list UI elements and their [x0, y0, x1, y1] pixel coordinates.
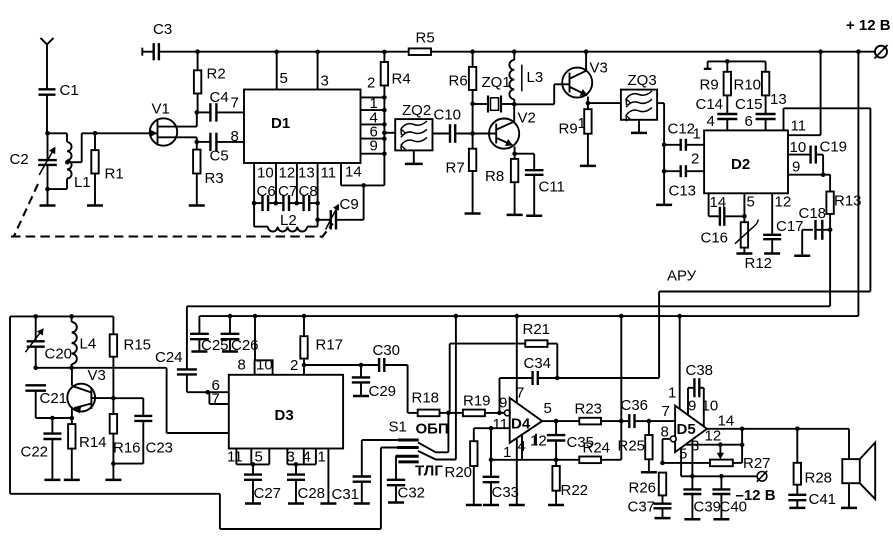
ZQ3 quartz filter [588, 102, 621, 104]
wire to pin 7 of D5 [649, 420, 675, 422]
switch S1 arm 1 [418, 442, 448, 452]
+12V terminal [875, 46, 887, 58]
svg-text:C2: C2 [10, 151, 29, 168]
svg-text:11: 11 [321, 165, 337, 182]
capacitor C11 [515, 153, 535, 155]
ZQ2 quartz filter [395, 119, 432, 150]
svg-text:3: 3 [321, 73, 329, 90]
wire R6 node to V2 base [472, 104, 474, 134]
svg-text:C34: C34 [524, 355, 552, 372]
pin 1 ground of D3 [327, 449, 329, 504]
svg-text:11: 11 [227, 449, 243, 466]
svg-text:ТЛГ: ТЛГ [415, 462, 443, 479]
svg-text:11: 11 [791, 118, 807, 135]
svg-text:L1: L1 [74, 174, 91, 191]
pin 12 of D2 / capacitor C17 [771, 193, 773, 235]
resistor R9 [726, 61, 728, 71]
svg-text:12: 12 [775, 194, 792, 211]
pin 1 ground of D4 [516, 438, 518, 505]
svg-text:C29: C29 [369, 383, 397, 400]
svg-text:5: 5 [255, 449, 263, 466]
transistor V3 (VFO) [67, 384, 95, 412]
resistor R1 [94, 133, 96, 150]
L1 tap wire [65, 160, 70, 165]
resistor R27 (variable) [710, 460, 733, 467]
node R6-ZQ1 [470, 102, 475, 107]
pin 3 of D1 [317, 52, 319, 90]
ground at R8 [507, 214, 523, 217]
svg-text:12: 12 [705, 428, 722, 445]
resistor R16 [111, 396, 116, 401]
capacitor C23 [113, 397, 143, 399]
svg-text:5: 5 [280, 70, 288, 87]
svg-text:C27: C27 [254, 485, 282, 502]
IC D2 [704, 130, 788, 193]
capacitor C30 [361, 364, 379, 366]
svg-text:V3: V3 [88, 367, 106, 384]
resistor R18 [408, 412, 418, 414]
svg-text:7: 7 [212, 391, 220, 408]
svg-text:C31: C31 [332, 486, 360, 503]
wire pin14 to C9 [363, 185, 365, 219]
capacitor C26 [229, 316, 231, 334]
R9/R10 top rail [708, 60, 766, 62]
capacitor C31 [361, 440, 363, 476]
VFO supply rail [10, 315, 113, 317]
svg-text:R7: R7 [446, 160, 465, 177]
ground at R1 [87, 204, 103, 207]
capacitor C25 [198, 316, 200, 334]
ground at ZQ3 [638, 120, 640, 133]
svg-text:ОБП: ОБП [416, 421, 449, 438]
svg-text:8: 8 [231, 128, 239, 145]
capacitor C24 [186, 306, 188, 369]
svg-text:L2: L2 [280, 212, 297, 229]
pins 8/10 of D3 [254, 316, 256, 360]
pin 8 of D5 [670, 436, 676, 442]
pin 2 of D3 [303, 365, 305, 375]
svg-text:C38: C38 [686, 362, 714, 379]
resistor R3 [196, 142, 198, 150]
wire R17 node to C30 [304, 364, 360, 366]
resistor R13 [823, 174, 830, 176]
capacitor C10 [433, 133, 450, 135]
svg-text:6: 6 [745, 113, 753, 130]
stub tick near R9 [707, 61, 709, 68]
inductor L3 [513, 52, 515, 60]
left frame wire [9, 316, 11, 493]
svg-text:R16: R16 [113, 440, 141, 457]
svg-text:1: 1 [318, 449, 326, 466]
svg-text:C32: C32 [398, 485, 426, 502]
resistor R26 [659, 473, 666, 496]
inductor L2 [253, 203, 255, 227]
svg-text:C9: C9 [340, 196, 359, 213]
svg-text:R28: R28 [805, 470, 833, 487]
pin 13 riser of D1 [296, 163, 298, 203]
wire ZQ3 to C12/C13 bus [657, 102, 664, 104]
svg-text:R10: R10 [734, 77, 762, 94]
capacitor C5 [195, 140, 200, 145]
switch S1 contact 2 [381, 447, 397, 449]
capacitor C32 [395, 456, 397, 480]
svg-text:R9: R9 [559, 121, 578, 138]
capacitor C40 [720, 476, 722, 489]
capacitor C3 [141, 48, 143, 56]
D4 output wire [542, 420, 556, 422]
svg-text:C21: C21 [40, 390, 68, 407]
pin 1 of D1 [361, 109, 385, 111]
ground at R20 [466, 504, 482, 507]
capacitor C36 [621, 420, 628, 422]
svg-text:D2: D2 [731, 156, 750, 173]
svg-text:C5: C5 [210, 148, 229, 165]
pin 13 of D2 [783, 108, 785, 130]
IC D3 [229, 375, 343, 449]
antenna W1 [41, 38, 54, 45]
svg-text:1: 1 [668, 385, 676, 402]
VFO tank wire to C24 [36, 367, 167, 369]
pin 6/7 of D3 [187, 391, 229, 393]
tuning gang dashed link [14, 184, 38, 236]
svg-text:R14: R14 [79, 434, 107, 451]
svg-text:C19: C19 [820, 139, 848, 156]
svg-text:13: 13 [298, 165, 315, 182]
svg-text:ZQ2: ZQ2 [402, 102, 431, 119]
svg-text:10: 10 [257, 165, 274, 182]
svg-text:D5: D5 [677, 421, 696, 438]
pin 5 of D3 [250, 449, 252, 465]
svg-text:R12: R12 [745, 255, 773, 272]
resistor R28 [796, 429, 798, 463]
resistor R8 [514, 154, 516, 159]
wire C1 to tank node [46, 95, 48, 134]
wire R13 node to lower rail [829, 230, 831, 306]
pin 11 of D3 [235, 449, 237, 465]
capacitor C7 [268, 202, 284, 204]
ground at R16 [105, 479, 121, 482]
-12V terminal [757, 472, 767, 482]
wire L3 node to V3 base [514, 103, 554, 105]
svg-text:1: 1 [578, 115, 586, 132]
svg-text:14: 14 [345, 164, 362, 181]
+12V top supply wire [198, 51, 409, 53]
capacitor C22 [51, 418, 53, 434]
D5 output wire [707, 428, 742, 430]
resistor R24 [579, 457, 601, 464]
AGC wire to feedback node [557, 377, 659, 379]
outer rail wire (R13 to C24) [187, 305, 830, 307]
svg-text:14: 14 [710, 194, 727, 211]
inner +12V rail wire [199, 315, 858, 317]
pin 10 riser of D1 [253, 163, 255, 203]
svg-text:R26: R26 [629, 480, 657, 497]
transistor V2 [489, 119, 519, 149]
svg-text:C14: C14 [696, 96, 724, 113]
inductor L1 [48, 132, 68, 134]
svg-text:R1: R1 [105, 166, 124, 183]
svg-text:C24: C24 [155, 349, 183, 366]
right pin bus of D1 [383, 86, 385, 186]
svg-text:V3: V3 [590, 60, 608, 77]
svg-text:10: 10 [790, 139, 807, 156]
svg-text:C1: C1 [60, 82, 79, 99]
capacitor C2 (variable) [47, 133, 49, 160]
ground at C17 [764, 252, 780, 255]
svg-text:ZQ3: ZQ3 [628, 72, 657, 89]
svg-text:12: 12 [530, 433, 547, 450]
svg-text:C15: C15 [735, 96, 763, 113]
resistor R25 [648, 421, 650, 435]
resistor R17 [303, 316, 305, 336]
svg-text:R23: R23 [575, 401, 603, 418]
transistor V3 [562, 68, 592, 98]
svg-text:L4: L4 [80, 336, 97, 353]
svg-text:C12: C12 [668, 121, 696, 138]
resistor R15 [112, 316, 114, 334]
svg-text:R22: R22 [561, 482, 589, 499]
svg-text:R20: R20 [445, 464, 473, 481]
svg-text:1: 1 [693, 126, 701, 143]
capacitor C1 [39, 88, 56, 90]
pin 4 of D4 [521, 435, 523, 460]
svg-text:R15: R15 [124, 337, 152, 354]
pin 4 of D1 [361, 123, 385, 125]
capacitor C41 [788, 494, 806, 496]
resistor R4 [383, 52, 385, 62]
pin 12 stub of D4 [535, 434, 537, 446]
svg-text:C23: C23 [146, 440, 174, 457]
svg-text:2: 2 [367, 75, 375, 92]
svg-text:8: 8 [238, 357, 246, 374]
resistor R22 [555, 460, 557, 466]
svg-text:4: 4 [707, 113, 715, 130]
svg-text:R13: R13 [834, 193, 862, 210]
svg-text:R9: R9 [700, 77, 719, 94]
switch S1 contact 4 [398, 460, 418, 463]
svg-text:R19: R19 [463, 393, 491, 410]
svg-text:C28: C28 [298, 485, 326, 502]
switch S1 arm 2 [418, 451, 456, 460]
AGC horizontal wire [659, 291, 870, 293]
svg-text:3: 3 [287, 449, 295, 466]
svg-text:C41: C41 [809, 491, 837, 508]
svg-text:R6: R6 [449, 73, 468, 90]
AGC vertical from pin13 [869, 108, 871, 291]
svg-text:R27: R27 [743, 455, 771, 472]
pin 3 of D5 / capacitor C39 [691, 440, 693, 490]
svg-text:D3: D3 [275, 407, 294, 424]
svg-text:C30: C30 [373, 342, 401, 359]
svg-text:R17: R17 [316, 337, 344, 354]
pin 11 of D2 [788, 134, 821, 136]
capacitor C20 (variable) [35, 316, 37, 341]
svg-text:C39: C39 [694, 499, 722, 516]
wire tap to V1 gate [82, 132, 158, 134]
pin 7 riser of D4 [516, 316, 518, 403]
svg-text:R24: R24 [583, 440, 611, 457]
switch S1 contact TLG [396, 455, 419, 458]
svg-text:C37: C37 [628, 499, 656, 516]
resistor R20 [473, 428, 475, 441]
bottom feedback rail of D4 [491, 459, 579, 461]
transistor V1 [150, 118, 177, 145]
ground at R12 [736, 252, 752, 255]
pin 12 wire of D5 [685, 444, 742, 446]
svg-text:R2: R2 [207, 66, 226, 83]
ground at R7 [465, 212, 481, 215]
svg-text:+ 12 В: + 12 В [846, 17, 891, 34]
pin 5 of D1 [276, 52, 278, 90]
svg-text:C8: C8 [299, 183, 318, 200]
svg-text:D4: D4 [511, 416, 531, 433]
resistor R12 (variable) [743, 193, 745, 222]
pin 12 riser of D1 [275, 163, 277, 203]
capacitor C34 [500, 377, 533, 379]
svg-text:C6: C6 [257, 183, 276, 200]
ground at C11 [526, 215, 542, 218]
ground at R3 [189, 204, 205, 207]
ground at C22 [44, 479, 60, 482]
pin 11 riser of D1 [317, 163, 319, 227]
resistor R21 [449, 344, 451, 413]
pin 6 of D1 [361, 138, 385, 140]
ground at C12/C13 bus [656, 204, 672, 207]
svg-text:C11: C11 [539, 179, 565, 196]
svg-text:R4: R4 [392, 71, 411, 88]
wire bus to ZQ2 [384, 132, 395, 134]
resistor R6 [472, 52, 474, 67]
svg-text:R21: R21 [523, 321, 551, 338]
ground at C2 [47, 189, 49, 205]
svg-text:4: 4 [303, 449, 311, 466]
op-amp D4 [504, 410, 510, 416]
resistor R7 [472, 134, 474, 149]
switch S1 contact OBP [362, 439, 398, 441]
svg-text:C22: C22 [21, 444, 49, 461]
resistor R14 [71, 418, 73, 424]
capacitor C14 [726, 95, 728, 114]
feedback wire pin8 to R27 [663, 462, 711, 464]
capacitor C27 [252, 464, 254, 474]
svg-text:R5: R5 [416, 30, 435, 47]
resistor R5 [409, 48, 431, 55]
capacitor C13 [662, 169, 667, 174]
svg-text:R3: R3 [205, 170, 224, 187]
pin 2 of D1 [361, 96, 385, 98]
capacitor C6 [254, 202, 263, 204]
svg-text:9: 9 [370, 138, 378, 155]
ground stub at C18 [794, 255, 810, 258]
capacitor C8 [289, 202, 303, 204]
svg-text:C4: C4 [210, 89, 229, 106]
svg-text:D1: D1 [271, 115, 290, 132]
-12V rail [692, 475, 757, 477]
capacitor C38 [687, 388, 689, 415]
svg-text:C13: C13 [669, 183, 697, 200]
svg-text:1: 1 [503, 444, 511, 461]
svg-text:12: 12 [279, 165, 296, 182]
capacitor C18 [816, 229, 831, 231]
ground at R14 [64, 479, 80, 482]
IC D1 [244, 90, 361, 164]
capacitor C35 [555, 421, 557, 435]
capacitor C29 [360, 365, 362, 377]
svg-text:5: 5 [544, 400, 552, 417]
svg-text:S1: S1 [389, 419, 407, 436]
svg-text:13: 13 [770, 91, 787, 108]
capacitor C4 [197, 111, 211, 113]
svg-text:R25: R25 [618, 438, 646, 455]
svg-text:7: 7 [662, 403, 670, 420]
svg-text:7: 7 [231, 95, 239, 112]
pin 14 of D1 [340, 163, 342, 185]
svg-text:L3: L3 [527, 69, 544, 86]
capacitor C9 (variable) [336, 219, 363, 221]
+12V top supply wire right [431, 51, 875, 53]
svg-text:2: 2 [290, 357, 298, 374]
svg-text:R18: R18 [412, 390, 440, 407]
resistor R10 [765, 61, 767, 71]
capacitor C21 [25, 384, 46, 386]
wiper arrow to R27 [719, 445, 721, 457]
capacitor C33 [490, 428, 492, 477]
capacitor C12 [662, 143, 667, 148]
ground at R9-1 [580, 165, 596, 168]
svg-text:9: 9 [792, 159, 800, 176]
speaker BA1 [842, 459, 860, 483]
svg-text:C33: C33 [492, 484, 520, 501]
op-amp D5 [675, 406, 707, 453]
resistor R2 [197, 52, 199, 71]
svg-text:ZQ1: ZQ1 [482, 74, 511, 91]
feedback riser at pin 9 [499, 378, 501, 413]
pin 10 of D2 / capacitor C19 [788, 154, 811, 156]
pin 14 of D2 / capacitor C16 [708, 193, 710, 216]
resistor R9-1 [587, 103, 589, 109]
svg-text:10: 10 [256, 357, 273, 374]
pin 1 riser of D5 [679, 316, 681, 409]
svg-text:C3: C3 [153, 21, 172, 38]
+12V riser to R23/C36 node [620, 316, 622, 460]
svg-text:АРУ: АРУ [667, 268, 697, 285]
ground at ZQ2 [413, 150, 415, 164]
quartz resonator ZQ1 [473, 103, 488, 105]
svg-text:R8: R8 [485, 168, 504, 185]
capacitor C28 [295, 464, 297, 474]
inductor L4 [71, 316, 73, 322]
capacitor C15 [765, 95, 767, 114]
+12V right drop wire [857, 52, 859, 316]
svg-text:C20: C20 [45, 346, 73, 363]
pin 9 of D1 [361, 153, 385, 155]
pin 5 of D5 to -12V [680, 448, 682, 477]
svg-text:C17: C17 [776, 218, 804, 235]
resistor R19 [448, 412, 463, 414]
svg-text:5: 5 [747, 194, 755, 211]
svg-text:11: 11 [493, 416, 509, 433]
capacitor C37 [654, 503, 672, 505]
svg-text:C10: C10 [434, 107, 462, 124]
svg-text:C7: C7 [278, 183, 297, 200]
svg-text:9: 9 [688, 398, 696, 415]
svg-text:2: 2 [691, 151, 699, 168]
pins 3/4 of D3 [286, 449, 288, 465]
resistor R23 [579, 418, 601, 425]
svg-text:V2: V2 [518, 110, 536, 127]
svg-text:C36: C36 [621, 397, 649, 414]
pin 9 of D2 [788, 174, 823, 176]
